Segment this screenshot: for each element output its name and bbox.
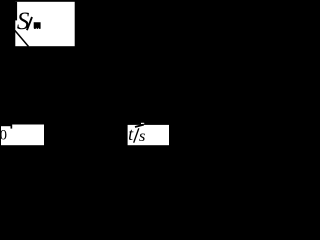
svg-text:s: s <box>139 127 146 146</box>
axis strip box <box>12 125 44 129</box>
svg-text:0: 0 <box>0 128 7 144</box>
white sliver above curve <box>141 123 144 124</box>
y-axis segment <box>15 2 17 21</box>
slash of t/s <box>134 128 139 142</box>
curve segment crossing S/m box <box>15 30 29 46</box>
black notch between boxes <box>11 126 13 129</box>
svg-text:S: S <box>17 8 30 35</box>
label m <box>34 22 41 29</box>
label box 0 (origin label background) <box>1 126 44 145</box>
label box t/s (x-axis label background) <box>128 125 169 145</box>
slash of S/m <box>27 17 32 30</box>
curve segment crossing t/s box top <box>135 125 144 127</box>
label box S/m (y-axis label background) <box>15 2 74 46</box>
